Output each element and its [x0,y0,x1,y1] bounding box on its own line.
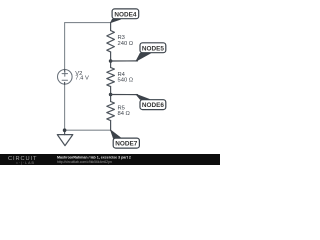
svg-text:84 Ω: 84 Ω [118,111,131,117]
svg-text:540 Ω: 540 Ω [118,78,134,84]
svg-text:240 Ω: 240 Ω [118,41,134,47]
svg-text:NODE4: NODE4 [114,11,136,18]
svg-text:NODE7: NODE7 [115,141,137,148]
svg-text:7.4 V: 7.4 V [75,76,89,82]
svg-text:http://circuitlab.com/c9kk56k4: http://circuitlab.com/c9kk56k4m62pn [57,160,112,164]
svg-text:NODE6: NODE6 [142,102,164,109]
svg-text:≈·|·LAB: ≈·|·LAB [16,161,35,165]
svg-text:NODE5: NODE5 [142,45,164,52]
